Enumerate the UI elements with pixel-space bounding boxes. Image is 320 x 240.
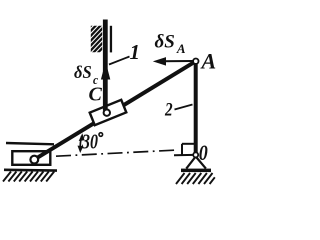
30° angle double arrow: [78, 133, 85, 153]
rod 1 (vertical rod in fixed guide): [103, 20, 108, 111]
ground hatching at O: [176, 173, 215, 184]
ground line (bottom-left): [4, 169, 57, 172]
svg-text:A: A: [200, 49, 217, 74]
arrow δS_A (shaft): [160, 60, 193, 62]
svg-text:0: 0: [199, 141, 208, 165]
ground bar at O: [181, 169, 211, 173]
svg-text:30: 30: [81, 131, 98, 155]
link 2 (bar OA): [194, 62, 198, 154]
slider C block: [90, 100, 127, 125]
leader line for label 1: [109, 57, 130, 65]
svg-text:2: 2: [164, 99, 173, 120]
slider block B: [12, 151, 50, 165]
dash-dot reference line: [56, 150, 178, 156]
arrow δS_A (head): [153, 57, 166, 66]
arrow head of δS_C on rod 1: [101, 62, 110, 80]
link AB (inclined rod): [34, 61, 196, 159]
support triangle at O: [186, 157, 206, 169]
degree mark of 30°: [99, 133, 103, 137]
pin at C: [104, 110, 110, 116]
pin joint A: [193, 59, 198, 64]
guide top line (bottom-left slider guide): [6, 143, 54, 144]
pin O: [193, 152, 198, 157]
svg-text:1: 1: [130, 40, 141, 64]
guide right wall line: [110, 26, 112, 53]
svg-text:C: C: [89, 84, 103, 106]
right-angle mark at O: [174, 144, 194, 155]
pin at B: [30, 156, 38, 164]
leader line for label 2: [175, 105, 193, 110]
ground hatching (bottom-left): [3, 172, 54, 182]
